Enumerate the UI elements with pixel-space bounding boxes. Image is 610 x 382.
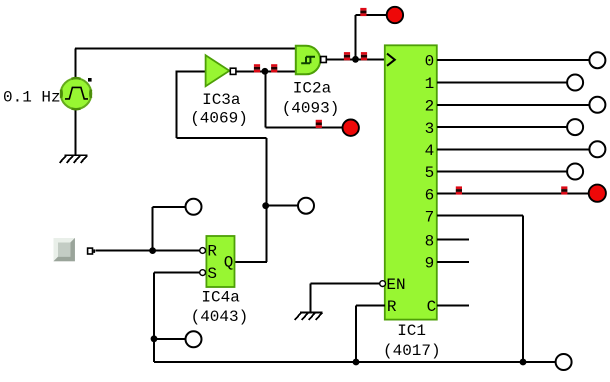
wire output 2	[437, 104, 590, 106]
svg-text:(4093): (4093)	[282, 99, 340, 117]
indicator on IC3a output (left)	[254, 64, 260, 72]
pin R label	[387, 298, 397, 316]
terminal output 5	[567, 164, 583, 180]
latch IC4a body	[206, 236, 234, 287]
wire clock node up	[355, 15, 357, 59]
junction bottom R-net	[353, 359, 360, 366]
label 0.1 Hz	[3, 88, 61, 106]
svg-text:IC4a: IC4a	[201, 289, 240, 307]
IC2a output bubble	[321, 57, 327, 63]
wire output 6	[437, 193, 589, 195]
pin 6	[425, 186, 435, 204]
wire output 8 stub	[437, 239, 469, 241]
svg-text:0.1 Hz: 0.1 Hz	[3, 88, 61, 106]
pin 5	[425, 164, 435, 182]
wire R input vertical	[355, 305, 357, 362]
wire output 7 horizontal	[437, 215, 523, 217]
svg-text:2: 2	[425, 98, 435, 116]
wire up to probe A	[152, 207, 154, 251]
wire top horizontal clock to IC2a input A	[75, 48, 296, 50]
junction IC3a output node	[262, 68, 269, 75]
indicator on clock wire (right)	[361, 52, 367, 60]
wire branch to probe node B	[266, 205, 298, 207]
svg-text:IC3a: IC3a	[202, 91, 241, 109]
terminal probe B (open circle)	[298, 198, 314, 214]
svg-text:S: S	[207, 265, 217, 283]
junction clock node	[352, 56, 359, 63]
wire R input horizontal	[356, 304, 385, 306]
svg-text:(4069): (4069)	[190, 110, 248, 128]
LED indicator (red) mid	[343, 120, 359, 136]
wire button to R input	[95, 250, 200, 252]
IC1 clock input symbol	[387, 54, 395, 66]
terminal output 3	[567, 119, 583, 135]
pin S label IC4a	[207, 265, 217, 283]
wire LED branch horizontal	[265, 127, 342, 129]
junction Q-net / probe B	[262, 202, 269, 209]
wire output 0	[437, 59, 590, 61]
NAND schmitt IC2a	[296, 46, 320, 75]
wire IC2a output to IC1 clock	[326, 58, 384, 60]
label (4069)	[190, 110, 248, 128]
counter IC1 body	[385, 45, 437, 319]
wire clock bottom to ground	[75, 109, 77, 156]
pin Q label IC4a	[224, 253, 234, 271]
label (4017)	[383, 342, 441, 360]
pin R label IC4a	[207, 243, 217, 261]
junction bottom output7	[520, 359, 527, 366]
R input bubble	[200, 248, 206, 254]
pin 9	[425, 255, 435, 273]
pin 4	[425, 142, 435, 160]
wire output 9 stub	[437, 261, 469, 263]
wire LED branch vertical	[264, 71, 266, 127]
svg-text:R: R	[207, 243, 217, 261]
label (4043)	[191, 308, 249, 326]
svg-text:4: 4	[425, 142, 435, 160]
wire output 7 vertical	[522, 216, 524, 362]
svg-text:9: 9	[425, 255, 435, 273]
svg-text:7: 7	[425, 209, 435, 227]
indicator on top LED wire	[360, 8, 366, 16]
wire S input horizontal	[154, 272, 200, 274]
indicator on LED branch	[316, 120, 322, 128]
indicator on output 6 (left)	[456, 186, 462, 194]
svg-text:IC1: IC1	[397, 322, 426, 340]
wire EN to ground	[311, 283, 380, 285]
wire Q net vertical	[265, 138, 267, 262]
svg-text:3: 3	[425, 120, 435, 138]
terminal output 4	[589, 141, 605, 157]
svg-text:EN: EN	[386, 276, 405, 294]
pin 1	[425, 75, 435, 93]
wire to probe A horizontal	[153, 206, 186, 208]
svg-text:C: C	[427, 298, 437, 316]
svg-text:(4017): (4017)	[383, 342, 441, 360]
LED indicator (red) top	[387, 7, 403, 23]
ground under clock	[60, 155, 88, 163]
wire Q output horizontal from IC4a	[235, 261, 268, 263]
wire C output stub	[437, 304, 469, 306]
pin EN label	[386, 276, 405, 294]
terminal probe A	[186, 199, 202, 215]
wire to probe C	[154, 338, 186, 340]
indicator on output 6 (right)	[561, 186, 567, 194]
EN input bubble	[380, 281, 386, 287]
pin 7	[425, 209, 435, 227]
svg-text:(4043): (4043)	[191, 308, 249, 326]
pin 8	[425, 232, 435, 250]
pin 0	[425, 53, 435, 71]
pin 3	[425, 120, 435, 138]
svg-text:R: R	[387, 298, 397, 316]
svg-text:Q: Q	[224, 253, 234, 271]
ground at EN	[295, 312, 323, 320]
wire EN ground vertical	[310, 284, 312, 313]
IC3a output bubble	[230, 68, 236, 74]
wire bottom bus	[154, 361, 556, 363]
pin 2	[425, 98, 435, 116]
wire output 3	[437, 126, 568, 128]
label (4093)	[282, 99, 340, 117]
wire clock top vertical	[75, 49, 77, 79]
clock source 0.1 Hz	[61, 78, 92, 109]
S input bubble	[200, 270, 206, 276]
svg-text:8: 8	[425, 232, 435, 250]
svg-text:5: 5	[425, 164, 435, 182]
label IC1	[397, 322, 426, 340]
LED indicator (red) output 6	[589, 185, 606, 202]
svg-text:IC2a: IC2a	[293, 80, 332, 98]
wire output 1	[437, 82, 568, 84]
push button	[54, 238, 75, 261]
terminal output 0	[589, 52, 605, 68]
clock state indicator (black square)	[88, 78, 92, 82]
junction button wire	[149, 247, 156, 254]
wire horizontal to Q net	[177, 137, 267, 139]
terminal probe C	[186, 331, 202, 347]
junction S-net probe branch	[151, 335, 158, 342]
svg-text:1: 1	[425, 75, 435, 93]
wire output 4	[437, 148, 590, 150]
button terminal	[88, 248, 96, 254]
terminal probe D	[556, 354, 572, 370]
svg-text:6: 6	[425, 186, 435, 204]
terminal output 2	[589, 97, 605, 113]
pin C label	[427, 298, 437, 316]
terminal output 1	[567, 75, 583, 91]
label IC4a	[201, 289, 240, 307]
wire IC3a output to IC2a input B	[236, 70, 296, 72]
label IC2a	[293, 80, 332, 98]
wire S vertical down	[153, 273, 155, 362]
indicator on IC3a output (right)	[271, 64, 277, 72]
wire vertical below IC3a input	[176, 71, 178, 138]
wire IC3a input horizontal	[177, 70, 207, 72]
wire output 5	[437, 171, 568, 173]
svg-text:0: 0	[425, 53, 435, 71]
wire to top LED	[356, 14, 387, 16]
inverter IC3a	[206, 55, 230, 86]
indicator on clock wire (left)	[344, 52, 350, 60]
label IC3a	[202, 91, 241, 109]
